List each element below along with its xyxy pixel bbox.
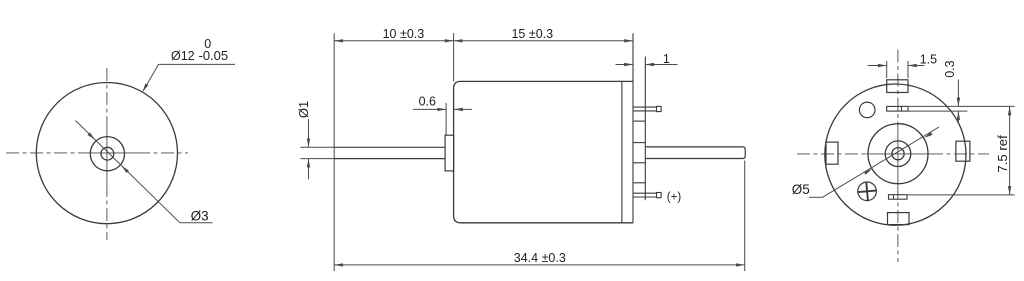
leader underline for diam 3 — [180, 222, 213, 224]
rear view: cap recess circle (diam 5) — [868, 124, 928, 184]
upper terminal pin — [633, 106, 657, 108]
left shaft bottom line — [334, 158, 445, 160]
dimension 10 +-0.3 — [334, 40, 453, 42]
bottom crimp tab — [888, 213, 910, 225]
svg-text:0.6: 0.6 — [419, 95, 436, 109]
upper terminal boss bottom edge — [633, 120, 645, 122]
alignment screw with cross recess — [858, 182, 877, 201]
lower terminal pin (+) — [633, 192, 657, 194]
svg-text:0.3: 0.3 — [943, 60, 957, 77]
extension line at body left edge — [453, 33, 455, 81]
front view: shaft circle (diam 1) — [101, 147, 114, 160]
case crimp seam line — [621, 81, 623, 222]
dimension 0.6 (boss width) — [413, 108, 446, 110]
extension line at shaft left end — [333, 33, 335, 271]
svg-text:Ø12: Ø12 — [171, 49, 195, 63]
dimension 1 (end cap boss depth) — [616, 64, 634, 66]
centerline horizontal (rear view) — [797, 153, 989, 155]
front view: motor case outline circle (diam 12) — [36, 83, 177, 224]
dimension diameter 1 (shaft) — [300, 146, 334, 148]
lower terminal boss top edge — [633, 182, 645, 184]
leader underline for diam 5 — [809, 196, 823, 198]
centerline vertical (front view) — [106, 68, 108, 240]
upper terminal seen from rear — [887, 106, 908, 111]
arrowhead touching case circle — [142, 84, 148, 93]
svg-text:1: 1 — [663, 52, 670, 66]
vent hole — [859, 102, 875, 118]
centerline vertical (rear view) — [897, 50, 899, 263]
leader to case circle — [143, 64, 159, 91]
front view: bearing boss circle (diam 3) — [90, 137, 124, 171]
svg-text:1.5: 1.5 — [920, 52, 937, 66]
rear view: case outline circle — [825, 84, 966, 225]
lower terminal tip — [657, 193, 662, 198]
arrowhead on diam-3 upper left — [88, 132, 96, 139]
motor body outline — [454, 81, 633, 222]
leader diagonal through cap circle — [823, 127, 939, 197]
svg-text:Ø3: Ø3 — [191, 209, 209, 224]
front bearing boss (0.6 wide) — [445, 135, 454, 171]
upper terminal tip — [657, 106, 662, 111]
rear view: shaft hole circle — [892, 148, 904, 160]
rear bearing boss bottom edge — [633, 162, 645, 164]
dimension 15 +-0.3 — [454, 40, 633, 42]
extension line from lower terminal — [907, 194, 1015, 196]
svg-text:-0.05: -0.05 — [199, 48, 229, 63]
leader line for diameter 3 — [76, 121, 180, 223]
extension line right of tab — [907, 61, 909, 78]
right crimp tab — [956, 141, 970, 161]
arrowhead on diam-3 lower right — [121, 166, 128, 173]
svg-text:Ø5: Ø5 — [792, 182, 810, 197]
rear view: bearing boss circle — [885, 141, 911, 167]
extension line for 0.6 — [445, 103, 447, 135]
leader underline for diam 12 — [159, 63, 236, 65]
extension line from terminal bottom — [908, 110, 967, 112]
arrowhead lower-left on diam-5 circle — [864, 169, 872, 175]
extension line from terminal top — [908, 105, 1015, 107]
svg-text:34.4 ±0.3: 34.4 ±0.3 — [514, 251, 566, 265]
centerline horizontal (front view) — [6, 152, 188, 154]
arrowhead upper-right on diam-5 circle — [924, 132, 932, 138]
svg-text:Ø1: Ø1 — [296, 101, 311, 118]
rear shaft stub — [645, 147, 745, 159]
lower terminal seen from rear — [889, 195, 908, 200]
rear bearing boss top edge — [633, 142, 645, 144]
extension line at rear shaft end — [744, 161, 746, 272]
end cap boss face line / extension line — [644, 57, 646, 201]
extension line left of tab — [886, 61, 888, 78]
svg-text:7.5 ref: 7.5 ref — [995, 135, 1010, 173]
left crimp tab — [826, 142, 838, 164]
top crimp tab — [887, 80, 908, 93]
dimension 34.4 +-0.3 overall length — [334, 264, 745, 266]
left shaft top line — [334, 146, 445, 148]
svg-text:10 ±0.3: 10 ±0.3 — [383, 27, 425, 41]
svg-text:15 ±0.3: 15 ±0.3 — [511, 27, 553, 41]
end cap face line / extension line — [632, 33, 634, 223]
svg-text:(+): (+) — [667, 191, 682, 203]
